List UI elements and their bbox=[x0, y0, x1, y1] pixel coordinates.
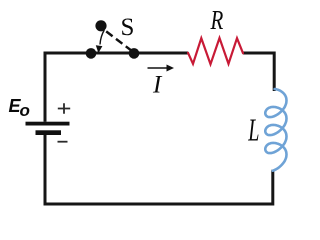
switch blade (dashed, open position) bbox=[106, 31, 133, 51]
svg-text:S: S bbox=[121, 14, 135, 41]
wire top-left L (top wire + left wire upper) bbox=[45, 53, 188, 122]
svg-text:R: R bbox=[210, 5, 224, 35]
battery long plate (+) bbox=[26, 122, 70, 126]
inductor L coil bbox=[265, 89, 286, 171]
switch closing arrow head bbox=[96, 45, 103, 53]
switch left contact dot bbox=[86, 48, 97, 59]
battery short plate (-) bbox=[36, 130, 62, 135]
switch right contact dot bbox=[129, 48, 140, 59]
wire bottom U (left lower, bottom, right lower) bbox=[45, 135, 273, 204]
switch closing arrow (curved shaft) bbox=[100, 30, 104, 45]
svg-text:o: o bbox=[20, 101, 30, 120]
switch pivot dot (blade end) bbox=[95, 20, 106, 31]
current arrow I shaft bbox=[148, 67, 168, 69]
svg-text:L: L bbox=[248, 113, 260, 148]
svg-text:I: I bbox=[152, 72, 163, 99]
wire top-right L (top wire right + right wire upper) bbox=[243, 53, 274, 91]
current arrow I head bbox=[167, 65, 175, 72]
battery + label bbox=[58, 103, 70, 114]
resistor R zigzag bbox=[188, 38, 243, 64]
battery - label bbox=[58, 141, 68, 143]
